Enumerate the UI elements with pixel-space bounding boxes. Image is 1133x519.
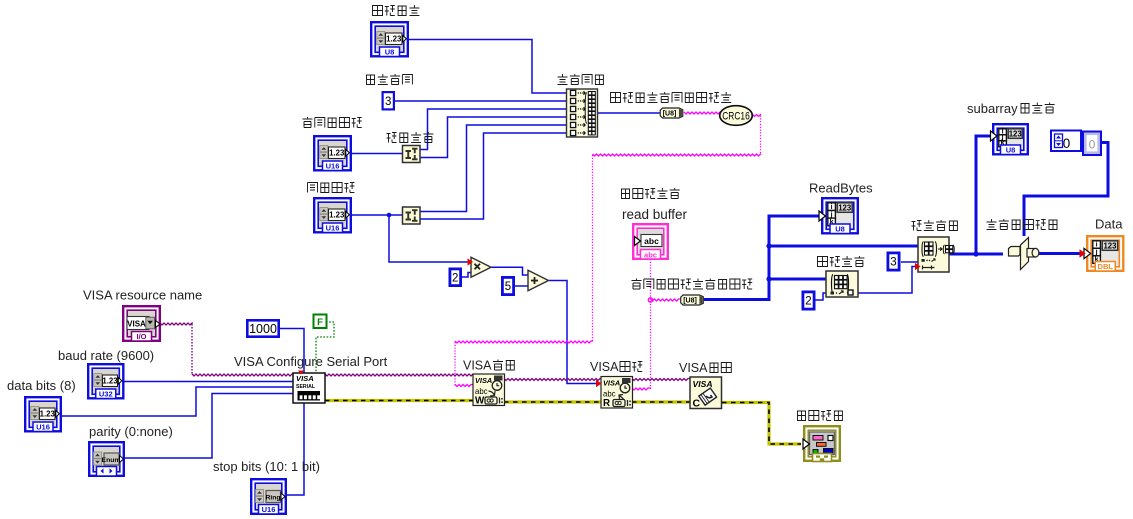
svg-text:U16: U16 [326,224,340,233]
label: index array (CJK) [818,256,865,267]
svg-text:U8: U8 [385,48,395,57]
wire: error VISA Close to error out [722,403,801,445]
junction: char length branch [387,213,392,218]
coercion dot: Data input [1080,249,1086,257]
control: char length (U16 numeric) [314,198,351,232]
wire: device address to Build Array input 1 [409,40,567,94]
junction: trunk to Array Subset [766,243,771,248]
wire: VISA Read buffer output up to read buffer indicator [632,388,651,390]
wire: constant 1000 to VISA Configure timeout [280,329,304,374]
wire: Type Cast output to Data indicator [1039,252,1084,255]
junction: trunk to Index Array [766,276,771,281]
svg-text:F: F [317,317,323,328]
svg-text:VISA: VISA [679,361,708,375]
wire: Index Array output to Array Subset length [858,267,918,294]
constant: 5 (add) [502,277,513,294]
wire: trunk branch to Array Subset array input [769,245,918,248]
wire: Split2 low byte to Build Array input 6 [419,133,567,219]
wire: VISA resource name to VISA Configure [160,323,193,325]
wire: constant 2 to Index Array index [815,293,826,300]
svg-text:C: C [693,398,701,410]
svg-text:data bits (8): data bits (8) [7,378,76,393]
wire: Byte Array To String to CRC16 [684,112,720,114]
svg-text:R: R [603,398,610,409]
svg-text:5: 5 [505,281,511,293]
svg-text:Data: Data [1095,217,1123,232]
svg-text:DBL: DBL [1098,262,1114,271]
node: Build Array (6 inputs) [567,89,598,137]
indicator: Data (DBL array) [1087,236,1123,271]
svg-text:U8: U8 [835,225,845,234]
wire: trunk branch to Index Array input [769,278,826,281]
svg-text:I/O: I/O [136,332,146,341]
wire: error VISA Write to VISA Read [504,400,601,403]
pin arrow: error out input [803,439,810,449]
svg-text:abc: abc [644,236,659,246]
svg-text:VISA: VISA [590,360,619,374]
node: Split Number 2 [403,207,421,224]
node: VISA Configure Serial Port [293,373,325,403]
label: build array (CJK) [558,74,604,85]
svg-text:VISA: VISA [475,376,492,385]
node: Split Number 1 [403,146,421,163]
node: Byte Array To String [U8] [660,108,683,118]
constant: false boolean F [314,315,327,329]
label: function code (CJK) [366,74,412,85]
wire: data bits to VISA Configure [62,387,293,416]
node: CRC16 subVI [720,106,753,126]
svg-text:1.23: 1.23 [386,34,402,43]
svg-text:U32: U32 [99,390,113,399]
label: string to byte array convert (CJK) [632,279,753,290]
label: char length (CJK) [308,183,355,193]
svg-text:U16: U16 [262,505,276,514]
junction: subset output branch [973,251,978,256]
constant: 2 (index array) [803,292,814,309]
wire: string branch to String To Byte Array [651,299,682,301]
wire: VISA Read to VISA Close [632,379,690,381]
wire: Split1 low byte to Build Array input 4 [419,117,567,158]
control: stop bits ring [251,479,286,514]
indicator: subarray (U8 array) [993,124,1028,154]
svg-text:CRC16: CRC16 [722,111,750,123]
wire: constant 3 to Build Array input 2 [394,100,567,102]
node: add [528,270,549,291]
wire: char length branch to multiply [389,215,471,262]
control: device address (U8 numeric) [371,22,408,56]
svg-text:VISA: VISA [603,379,620,388]
svg-text:1.23: 1.23 [329,210,345,219]
svg-text:0: 0 [1063,136,1071,151]
svg-text:1.23: 1.23 [40,409,56,418]
svg-text:1.23: 1.23 [102,376,118,385]
control: baud rate (U32 numeric) [88,364,123,398]
svg-text:U16: U16 [326,162,340,171]
wire: constant 2 to multiply [462,273,471,278]
svg-text:1.23: 1.23 [329,148,345,157]
svg-text:SERIAL: SERIAL [296,384,316,390]
wire: char length to Split Number 2 [352,214,403,216]
wire: add result to VISA Read byte count [549,281,601,384]
node: Index Array [826,271,858,297]
svg-text:abc: abc [644,251,657,260]
indicator: read buffer (string, pink) [633,224,668,259]
label: type cast (CJK) [987,219,1058,230]
constant: 3 (function code) [383,92,394,109]
svg-text:3: 3 [385,96,391,108]
junction: string wire [648,298,652,302]
coercion dot: VISA Configure timeout [298,371,304,375]
svg-text:stop bits (10: 1 bit): stop bits (10: 1 bit) [213,459,320,474]
svg-text:[U8]: [U8] [663,111,677,118]
svg-text:parity (0:none): parity (0:none) [89,424,173,439]
svg-text:1000: 1000 [249,322,277,336]
svg-text:Ring: Ring [265,495,280,502]
wire: error VISA Read to VISA Close [632,400,690,403]
control: numeric 0 [1051,131,1081,152]
control: parity enum [89,442,124,476]
node: VISA Close [690,377,722,410]
indicator: error out cluster [804,426,840,461]
svg-text:read buffer: read buffer [622,207,688,222]
svg-text:U16: U16 [36,423,50,432]
wire: Split2 high byte to Build Array input 5 [419,125,567,212]
constant: 3 (array subset) [888,253,899,270]
constant: 1000 (timeout) [247,320,278,336]
wire: register address to Split Number 1 [352,153,403,155]
svg-text:U8: U8 [1006,146,1016,155]
svg-text:subarray: subarray [967,101,1018,116]
wire: stop bits to VISA Configure [286,403,304,495]
wire: constant 5 to add [515,285,528,287]
svg-text:VISA: VISA [463,359,492,373]
label: read buffer (CJK) [621,188,680,199]
svg-text:baud rate (9600): baud rate (9600) [58,348,154,363]
node: VISA Read [601,377,633,410]
label: register address (CJK) [303,117,362,128]
control: data bits (U16 numeric) [25,397,61,431]
wire: error VISA Configure to VISA Write [325,399,473,402]
node: Type Cast [1009,238,1039,270]
wire: VISA Configure to VISA Write [325,374,473,376]
svg-text:VISA: VISA [296,374,314,383]
constant: 2 (multiply) [450,269,461,286]
label: byte array to string convert (CJK) [611,92,732,103]
node: Array Subset [918,237,954,272]
control: VISA resource name [123,306,160,341]
wire: false constant to VISA Configure [316,322,334,372]
wire: branch up to subarray indicator [976,136,990,254]
svg-text:3: 3 [890,257,896,269]
label: split number 1 (CJK) [387,132,434,143]
wire: String To Byte Array output trunk up to ReadBytes [704,216,822,300]
wire: numeric 0 constant loop to Type Cast type input [1024,143,1108,237]
coercion dot: multiply input [468,258,474,265]
svg-text:123: 123 [838,203,852,212]
control: register address (U16 numeric) [314,136,351,170]
wire: baud rate to VISA Configure [124,381,293,383]
svg-text:VISA: VISA [127,319,146,328]
svg-text:VISA resource name: VISA resource name [83,288,202,303]
svg-text:123: 123 [1103,241,1117,250]
label: device address (CJK) [373,5,420,16]
node: VISA Write [473,374,505,407]
coercion dot: VISA Read byte count [596,380,602,387]
svg-text:123: 123 [1009,129,1023,138]
svg-text:ReadBytes: ReadBytes [809,181,873,196]
svg-text:2: 2 [452,272,458,284]
wire: Split1 high byte to Build Array input 3 [419,109,567,150]
node: multiply [471,257,491,277]
wire: constant 3 to Array Subset index [901,261,918,263]
coercion dot: Array Subset length input [915,263,921,270]
label: error out (CJK) [797,411,843,421]
wire: parity to VISA Configure [125,394,293,459]
svg-text:W: W [475,396,485,407]
svg-text:0: 0 [1089,138,1096,152]
wire: VISA Write to VISA Read [504,379,601,381]
node: String To Byte Array [U8] [681,295,704,305]
svg-text:[U8]: [U8] [683,298,697,305]
label: array subset (CJK) [912,220,958,231]
svg-text:Enum: Enum [102,457,121,464]
svg-text:VISA: VISA [693,379,713,389]
wire: Array Subset output to Type Cast [949,253,1003,256]
indicator: ReadBytes (U8 array) [822,198,858,233]
wire: multiply to add [491,267,528,275]
indicator: 0 (coerced display) [1083,132,1101,156]
svg-text:2: 2 [805,296,811,308]
wire: Build Array output to Byte Array To String [598,112,660,114]
wire: CRC16 output down and around to VISA Write buffer [753,115,762,117]
svg-text:VISA Configure Serial Port: VISA Configure Serial Port [234,354,388,369]
